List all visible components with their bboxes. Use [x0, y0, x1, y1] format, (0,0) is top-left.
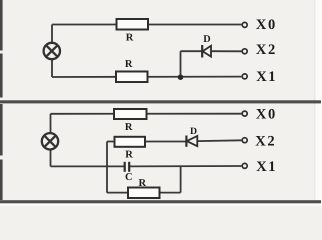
svg-text:X1: X1 [256, 159, 277, 175]
svg-text:D: D [190, 126, 197, 137]
svg-text:R: R [125, 150, 133, 161]
svg-text:X2: X2 [256, 42, 277, 58]
svg-text:C: C [125, 172, 133, 183]
svg-text:R: R [126, 33, 134, 44]
svg-text:R: R [125, 59, 133, 70]
svg-text:X1: X1 [256, 69, 277, 85]
svg-text:R: R [125, 122, 133, 133]
svg-text:X0: X0 [256, 17, 277, 33]
svg-text:X2: X2 [255, 134, 276, 150]
svg-text:X0: X0 [256, 107, 277, 123]
svg-text:D: D [203, 34, 210, 45]
svg-text:R: R [139, 178, 147, 189]
